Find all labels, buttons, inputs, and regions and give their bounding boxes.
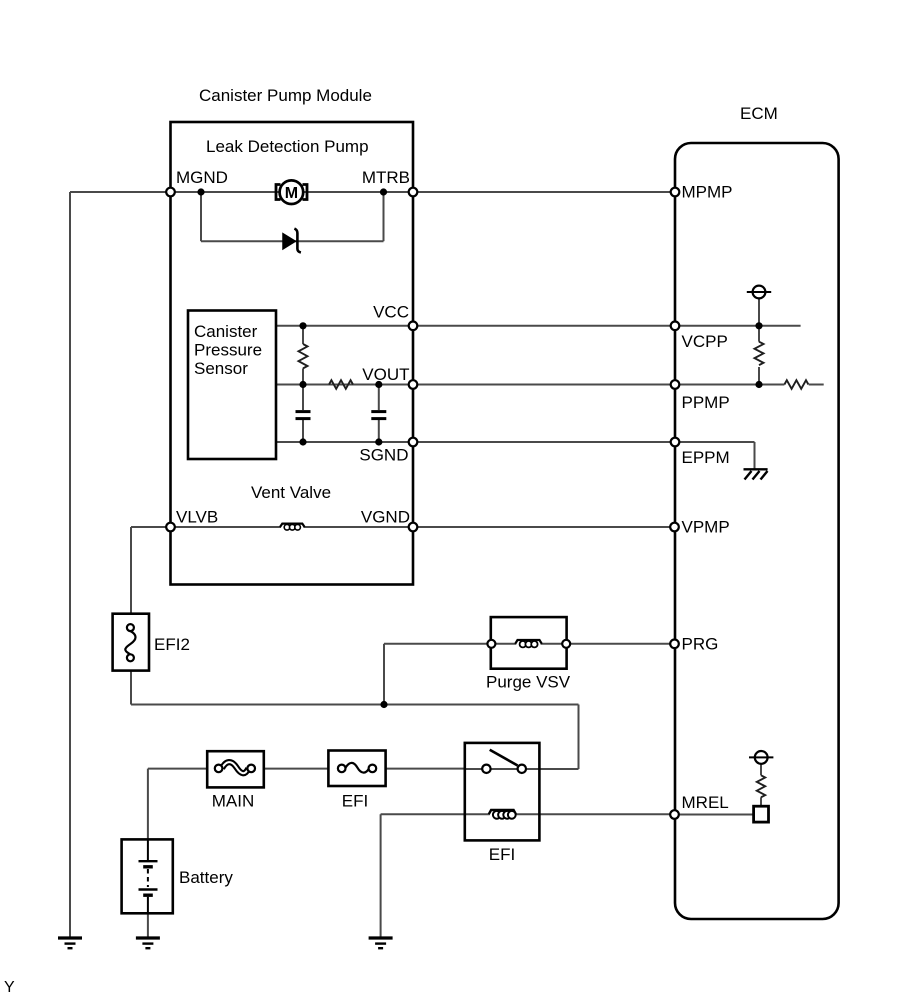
- svg-text:EFI: EFI: [489, 845, 515, 864]
- motor M leak detection pump: [276, 180, 307, 204]
- inductor purge VSV coil: [515, 640, 542, 647]
- terminal VPMP: [670, 523, 679, 532]
- svg-text:Pressure: Pressure: [194, 341, 262, 360]
- junction VCPP: [755, 322, 762, 329]
- svg-text:M: M: [285, 185, 298, 202]
- relay coil: [489, 810, 516, 819]
- terminal PRG: [670, 640, 679, 649]
- capacitor C1: [296, 412, 311, 419]
- wire PPMP internal row: [675, 384, 784, 386]
- wire VGND to VPMP: [413, 526, 675, 528]
- fuse MAIN element: [215, 762, 255, 773]
- wire VCC row: [276, 325, 675, 327]
- svg-text:Y: Y: [4, 979, 15, 995]
- resistor PPMP series: [784, 380, 808, 389]
- ground battery: [136, 938, 160, 948]
- svg-text:Battery: Battery: [179, 868, 233, 887]
- wire VCPP power drop: [758, 298, 760, 325]
- junction VOUT-R: [299, 381, 306, 388]
- fuse EFI element: [338, 763, 376, 773]
- svg-text:EFI: EFI: [342, 792, 368, 811]
- wire relay coil left to ground: [381, 813, 465, 815]
- terminal VOUT: [409, 380, 418, 389]
- wire battery riser: [147, 769, 149, 840]
- junction SGND-C2: [375, 438, 382, 445]
- label Canister Pressure Sensor: [194, 322, 262, 378]
- relay switch contact left: [482, 765, 490, 773]
- capacitor C2: [371, 412, 386, 419]
- junction PPMP: [755, 381, 762, 388]
- resistor sensor pull-up: [299, 344, 308, 368]
- terminal VCC: [409, 322, 418, 331]
- terminal MTRB: [409, 188, 418, 197]
- wire relay switch row: [465, 768, 540, 770]
- battery cells: [139, 840, 158, 913]
- svg-text:MTRB: MTRB: [362, 168, 410, 187]
- wire ECM resistor vertical: [758, 326, 760, 342]
- svg-text:VLVB: VLVB: [176, 508, 218, 527]
- svg-text:VGND: VGND: [361, 508, 410, 527]
- canister pressure sensor box: [188, 311, 276, 460]
- junction MGND: [197, 188, 204, 195]
- wire MREL internal: [675, 814, 754, 816]
- wire MREL resistor link: [760, 764, 762, 775]
- relay switch blade: [490, 750, 518, 766]
- wire diode row: [201, 240, 384, 242]
- svg-text:MAIN: MAIN: [212, 792, 255, 811]
- svg-text:MREL: MREL: [682, 793, 729, 812]
- fuse EFI2 element: [125, 624, 135, 661]
- terminal MPMP: [671, 188, 680, 197]
- svg-text:Canister Pump Module: Canister Pump Module: [199, 86, 372, 105]
- wire VCPP internal row: [675, 325, 801, 327]
- svg-text:Vent Valve: Vent Valve: [251, 483, 331, 502]
- ground left: [58, 938, 82, 948]
- fuse MAIN box: [207, 751, 264, 787]
- wire VLVB left: [131, 526, 171, 528]
- wire cap C1 vertical: [302, 385, 304, 411]
- wire MTRB to MPMP: [413, 191, 675, 193]
- wire vent valve row VLVB-VGND: [171, 526, 282, 528]
- wire SGND row: [276, 441, 675, 443]
- relay switch contact right: [518, 765, 526, 773]
- junction VOUT-C2: [375, 381, 382, 388]
- wire VLVB drop to EFI2: [130, 527, 132, 614]
- wire motor row MGND-MTRB: [171, 191, 414, 193]
- svg-text:VCPP: VCPP: [682, 332, 728, 351]
- wire purge VSV row: [491, 643, 516, 645]
- wire relay coil to MREL: [539, 813, 674, 815]
- wire sensor R1 vertical: [302, 326, 304, 344]
- terminal VCPP: [671, 322, 680, 331]
- svg-text:PRG: PRG: [682, 634, 719, 653]
- power symbol VCPP: [747, 286, 771, 299]
- junction SGND-C1: [299, 438, 306, 445]
- svg-text:VPMP: VPMP: [682, 518, 730, 537]
- svg-text:MGND: MGND: [176, 168, 228, 187]
- wire diode branch right rise: [383, 192, 385, 241]
- power symbol MREL: [749, 751, 773, 764]
- terminal VGND: [409, 523, 418, 532]
- wire MAIN to EFI: [264, 768, 329, 770]
- terminal MGND: [166, 188, 175, 197]
- resistor VOUT series: [329, 380, 353, 389]
- wire relay coil row: [465, 813, 490, 815]
- resistor ECM VCPP-PPMP: [755, 342, 764, 365]
- wire VOUT row: [276, 384, 675, 386]
- resistor MREL pull-up: [757, 775, 765, 797]
- purge VSV box: [491, 617, 567, 669]
- relay EFI box: [465, 743, 540, 841]
- terminal VLVB: [166, 523, 175, 532]
- svg-text:Purge VSV: Purge VSV: [486, 673, 571, 692]
- ground relay coil: [369, 938, 393, 948]
- terminal EPPM: [671, 438, 680, 447]
- terminal MREL: [670, 810, 679, 819]
- junction VCC-R: [299, 322, 306, 329]
- svg-text:Leak Detection Pump: Leak Detection Pump: [206, 137, 369, 156]
- terminal SGND: [409, 438, 418, 447]
- wire bus row: [131, 704, 579, 706]
- wire bus drop to relay: [578, 705, 580, 770]
- canister pump module box: [171, 122, 414, 585]
- junction MTRB: [380, 188, 387, 195]
- terminal PPMP: [671, 380, 680, 389]
- svg-text:Canister: Canister: [194, 322, 258, 341]
- terminal purge VSV left: [487, 640, 495, 648]
- fuse EFI2 box: [113, 614, 149, 671]
- junction bus node: [380, 701, 387, 708]
- svg-text:EPPM: EPPM: [682, 448, 730, 467]
- fuse EFI box: [328, 751, 385, 787]
- wire purge branch vertical: [383, 644, 385, 705]
- wire diode branch left drop: [200, 192, 202, 241]
- wire cap C2 vertical: [378, 385, 380, 411]
- terminal purge VSV right: [562, 640, 570, 648]
- wire battery bottom to ground: [147, 913, 149, 938]
- wire EFI2 to bus: [130, 670, 132, 704]
- chassis ground EPPM: [744, 469, 768, 479]
- svg-text:SGND: SGND: [359, 446, 408, 465]
- wire relay switch right: [539, 768, 578, 770]
- svg-text:VOUT: VOUT: [362, 365, 409, 384]
- wire battery to MAIN: [148, 768, 207, 770]
- svg-text:EFI2: EFI2: [154, 635, 190, 654]
- wire EPPM internal: [675, 441, 755, 443]
- svg-text:PPMP: PPMP: [682, 393, 730, 412]
- wire EFI to relay: [386, 768, 465, 770]
- wire purge VSV left: [384, 643, 491, 645]
- wire MGND stub left: [70, 191, 171, 193]
- svg-text:Sensor: Sensor: [194, 359, 248, 378]
- battery box: [122, 839, 173, 913]
- wire left ground drop: [69, 192, 71, 938]
- ECM box: [675, 143, 839, 919]
- svg-text:VCC: VCC: [373, 303, 409, 322]
- wire purge VSV to PRG: [566, 643, 674, 645]
- svg-text:ECM: ECM: [740, 104, 778, 123]
- MREL square terminal: [754, 806, 769, 822]
- svg-text:MPMP: MPMP: [682, 183, 733, 202]
- diode D1 (zener): [283, 229, 301, 253]
- inductor vent valve coil: [280, 524, 305, 531]
